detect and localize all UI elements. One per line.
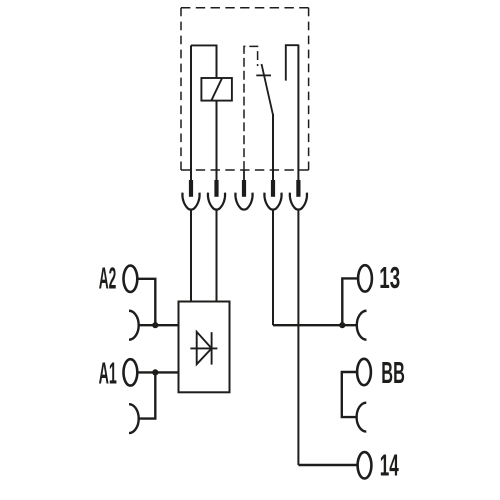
wire: terminal 2 down to rectifier box	[216, 210, 218, 303]
wire: A1 to rectifier box	[137, 371, 178, 373]
socket arc below A1	[129, 404, 139, 433]
wire: loop down to terminal 5	[297, 45, 299, 182]
socket cup terminal 2	[208, 193, 225, 210]
plug pin terminal 1	[189, 180, 193, 197]
diode D1 anode lead	[190, 347, 217, 349]
junction node at A2 branch	[152, 322, 158, 328]
wire: A1 socket up to junction	[139, 372, 156, 418]
mechanical actuator link (dashed) from terminal 3	[244, 46, 258, 170]
terminal circle BB	[357, 359, 371, 385]
rectifier box U1	[179, 302, 230, 393]
socket cup terminal 5	[290, 193, 307, 210]
wire: BB to socket arc	[342, 372, 357, 417]
terminal circle A1	[123, 359, 137, 385]
svg-text:A1: A1	[99, 356, 117, 391]
socket cup terminal 3	[235, 193, 252, 210]
svg-text:A2: A2	[99, 263, 117, 297]
relay coil K1 body	[201, 78, 232, 101]
wire: A2 to junction	[137, 279, 155, 325]
wire: coil loop left vertical (terminal 1 to top)	[190, 45, 192, 181]
relay coil K1 diagonal stroke	[211, 78, 222, 100]
terminal circle A2	[123, 266, 137, 292]
wire: terminal 3 stub	[243, 170, 245, 181]
junction node at 13 branch	[339, 322, 345, 328]
wire: to terminal circle 14	[298, 464, 357, 466]
wire: terminal 4 branch to socket 13	[273, 324, 357, 326]
plug pin terminal 5	[296, 180, 300, 197]
svg-text:BB: BB	[381, 357, 405, 391]
terminal circle 13	[358, 265, 372, 291]
wire: terminal 4 down to node 13	[272, 210, 274, 326]
wire: terminal 1 down to rectifier box	[190, 210, 192, 303]
socket arc below BB	[357, 403, 367, 432]
NO contact moving blade	[262, 64, 274, 115]
wire: coil loop right vertical down to coil	[216, 45, 218, 79]
socket cup terminal 1	[182, 193, 199, 210]
wire: 13 to junction	[342, 278, 358, 325]
diode D1 triangle	[197, 332, 212, 364]
terminal circle 14	[358, 452, 372, 478]
NO contact crossbar	[256, 74, 271, 76]
svg-text:13: 13	[379, 262, 400, 296]
plug pin terminal 2	[214, 180, 218, 197]
wire: contact fixed-side loop	[286, 45, 299, 80]
plug pin terminal 3	[242, 180, 246, 197]
wire: coil loop top horizontal	[191, 44, 217, 46]
plug pin terminal 4	[271, 180, 275, 197]
wire: A2 socket to rectifier box	[139, 324, 179, 326]
diode D1 cathode bar	[211, 332, 213, 364]
socket arc below 13	[357, 311, 367, 340]
svg-text:14: 14	[380, 449, 399, 482]
socket arc below A2	[129, 311, 139, 340]
socket cup terminal 4	[264, 193, 281, 210]
wire: terminal 5 down to node 14	[297, 210, 299, 466]
wire: coil bottom to terminal 2	[216, 101, 218, 181]
junction node at A1 branch	[152, 369, 158, 375]
relay module outline (dashed box)	[181, 8, 309, 170]
wire: blade to terminal 4	[272, 114, 274, 181]
